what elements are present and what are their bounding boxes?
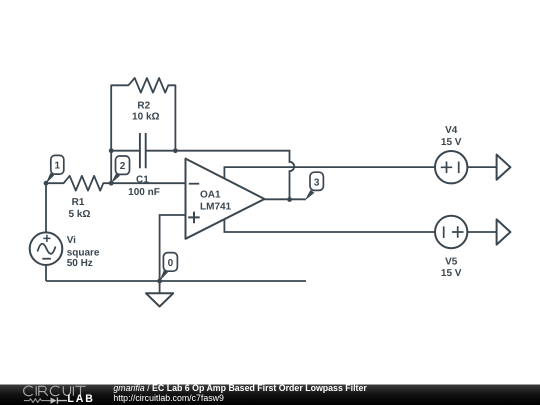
ground (146, 281, 173, 307)
wire node2 vertical (110, 151, 112, 184)
svg-text:2: 2 (120, 161, 126, 172)
junction output node3 (287, 197, 292, 202)
svg-text:LAB: LAB (67, 393, 94, 405)
wire op-amp output (265, 198, 306, 200)
svg-text:square: square (67, 247, 100, 258)
svg-text:http://circuitlab.com/c7fasw9: http://circuitlab.com/c7fasw9 (113, 393, 224, 403)
svg-text:C1: C1 (136, 175, 149, 186)
wire ground rail (46, 280, 306, 282)
svg-text:V4: V4 (445, 125, 458, 136)
svg-text:OA1: OA1 (200, 189, 221, 200)
voltage source Vi (30, 232, 100, 268)
junction ground (157, 279, 162, 284)
svg-text:LM741: LM741 (200, 202, 232, 213)
wire R1 to op-amp inverting input (111, 182, 185, 184)
svg-text:15 V: 15 V (441, 268, 462, 279)
wire Vi bottom to ground rail (45, 265, 47, 281)
junction node2 (109, 181, 114, 186)
wire V+ rail to V4 (224, 167, 435, 179)
node 0 (159, 253, 177, 282)
svg-text:R1: R1 (72, 197, 85, 208)
wire V- rail to V5 (224, 219, 435, 232)
svg-text:10 kΩ: 10 kΩ (132, 111, 159, 122)
capacitor C1 (111, 133, 175, 198)
wire non-inverting input from ground rail (160, 215, 186, 281)
svg-text:Vi: Vi (67, 235, 76, 246)
svg-text:1: 1 (55, 161, 61, 172)
svg-text:50 Hz: 50 Hz (67, 258, 93, 269)
CircuitLab logo (24, 386, 86, 396)
wire feedback with hop over V+ rail (175, 151, 294, 200)
node 2 (111, 156, 130, 184)
svg-text:3: 3 (314, 178, 320, 189)
junction node1 (44, 181, 49, 186)
svg-text:V5: V5 (445, 257, 458, 268)
voltage source V4 (435, 125, 467, 183)
svg-text:15 V: 15 V (441, 137, 462, 148)
footer bar (0, 385, 540, 405)
voltage source V5 (435, 216, 467, 279)
wire V4 to output flag (467, 166, 496, 168)
logo squiggle (24, 393, 95, 405)
output flag bottom (497, 219, 511, 244)
svg-text:R2: R2 (137, 100, 150, 111)
svg-text:100 nF: 100 nF (128, 187, 160, 198)
op-amp OA1 (186, 159, 265, 239)
junction R2/C1 left (109, 148, 114, 153)
node 3 (305, 172, 324, 201)
junction R2/C1 right (173, 148, 178, 153)
footer title text (113, 383, 367, 403)
svg-text:0: 0 (168, 258, 174, 269)
output flag top (497, 155, 511, 180)
wire node1 down to Vi (45, 183, 47, 232)
resistor R2 (111, 78, 175, 151)
svg-text:5 kΩ: 5 kΩ (69, 209, 91, 220)
node 1 (46, 155, 64, 184)
wire V5 to output flag (467, 231, 496, 233)
resistor R1 (46, 176, 111, 220)
svg-text:gmarifia / EC Lab 6 Op Amp Bas: gmarifia / EC Lab 6 Op Amp Based First O… (113, 383, 367, 393)
